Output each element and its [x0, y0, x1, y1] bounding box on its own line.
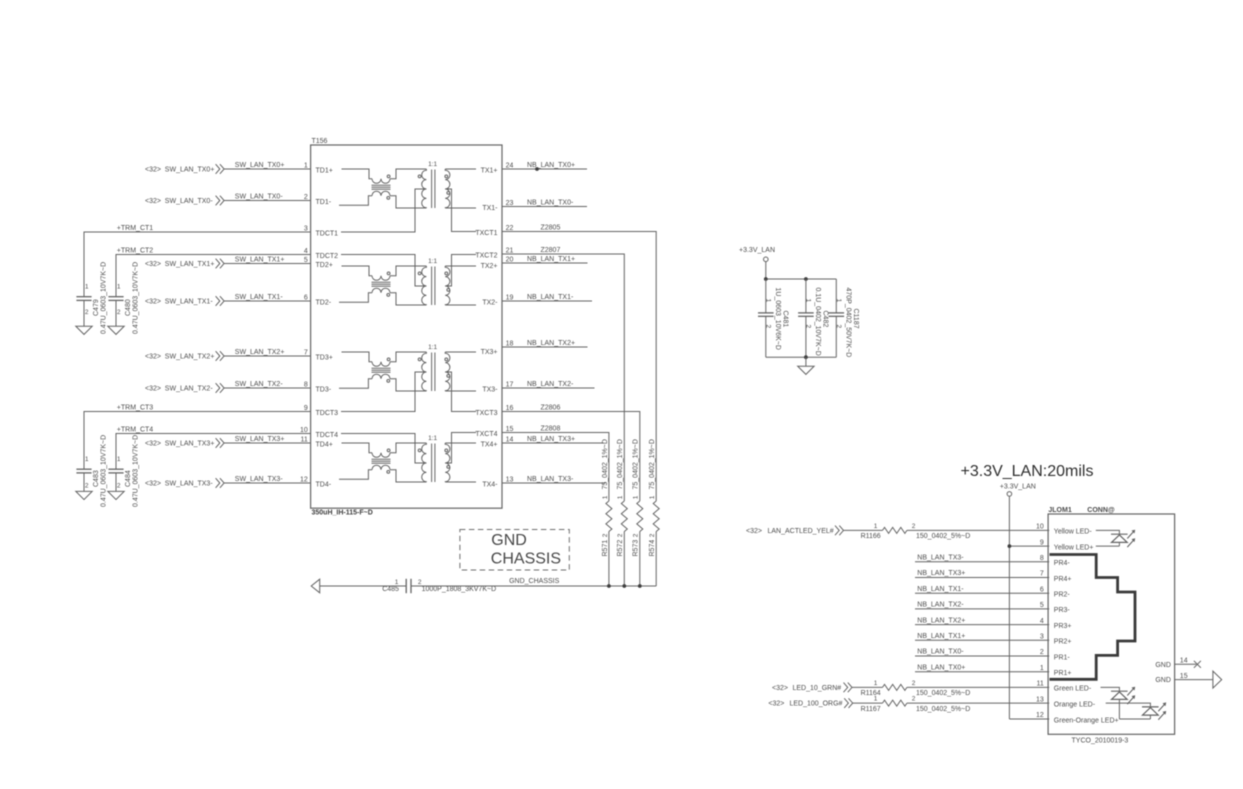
value label TYCO_2010019-3: [1072, 738, 1129, 745]
svg-text:24: 24: [506, 163, 514, 170]
svg-text:NB_LAN_TX1+: NB_LAN_TX1+: [527, 256, 575, 263]
svg-text:NB_LAN_TX3+: NB_LAN_TX3+: [917, 570, 965, 577]
junction pin 9: [1008, 544, 1012, 548]
svg-text:350uH_IH-115-F~D: 350uH_IH-115-F~D: [312, 510, 373, 517]
svg-text:SW_LAN_TX0+: SW_LAN_TX0+: [235, 162, 285, 169]
pin 1 TD1+: [304, 163, 333, 175]
svg-text:TD3+: TD3+: [316, 355, 333, 362]
svg-text:TXCT4: TXCT4: [475, 431, 497, 438]
wire NB_LAN_TX2-: [915, 602, 1049, 609]
pin 13 TX4-: [482, 477, 513, 489]
svg-text:4: 4: [304, 248, 308, 255]
wire LAN_ACTLED_YEL#: [844, 529, 883, 531]
svg-text:1000P_1808_3KV7K~D: 1000P_1808_3KV7K~D: [422, 586, 497, 593]
wire NB_LAN_TX0+: [915, 664, 1049, 671]
wire +TRM_CT4: [116, 426, 311, 469]
svg-text:2: 2: [912, 696, 916, 703]
svg-text:SW_LAN_TX3+: SW_LAN_TX3+: [235, 436, 285, 443]
svg-text:2: 2: [633, 533, 640, 537]
svg-text:TDCT2: TDCT2: [316, 253, 339, 260]
svg-text:NB_LAN_TX1-: NB_LAN_TX1-: [527, 294, 574, 301]
pin 21 TXCT2: [475, 248, 513, 260]
wire GND_CHASSIS right: [411, 578, 656, 586]
pin 7 PR4+: [1040, 571, 1072, 583]
svg-text:TXCT3: TXCT3: [475, 410, 497, 417]
svg-text:15: 15: [1180, 673, 1188, 680]
svg-text:1: 1: [649, 495, 656, 499]
resistor R574: [649, 439, 659, 556]
off-page arrow GND_CHASSIS: [311, 579, 320, 593]
svg-text:<32>: <32>: [768, 701, 784, 708]
svg-text:PR2+: PR2+: [1054, 639, 1072, 646]
svg-text:<32>: <32>: [145, 261, 161, 268]
svg-text:TD2+: TD2+: [316, 262, 333, 269]
wire secondary center tap channel 1: [445, 189, 476, 232]
svg-text:1: 1: [633, 495, 640, 499]
svg-text:Z2807: Z2807: [541, 247, 561, 254]
common-mode choke channel 1: [339, 169, 426, 208]
svg-text:R1166: R1166: [861, 533, 881, 540]
svg-text:C484: C484: [125, 470, 132, 487]
svg-text:SW_LAN_TX2+: SW_LAN_TX2+: [165, 353, 215, 360]
wire Green-Orange LED+ internal: [1119, 718, 1150, 720]
svg-text:13: 13: [506, 477, 514, 484]
ground: [76, 326, 92, 334]
svg-text:Z2806: Z2806: [541, 404, 561, 411]
svg-text:SW_LAN_TX0-: SW_LAN_TX0-: [235, 194, 284, 201]
svg-text:C1187: C1187: [852, 309, 859, 329]
svg-text:<32>: <32>: [145, 385, 161, 392]
pin 4 PR3+: [1040, 618, 1072, 630]
svg-text:R571: R571: [602, 540, 609, 557]
svg-text:470P_0402_50V7K~D: 470P_0402_50V7K~D: [845, 288, 852, 358]
ground: [108, 491, 124, 499]
svg-text:9: 9: [1040, 539, 1044, 546]
pin 3 TDCT1: [304, 226, 338, 238]
pin 15 TXCT4: [475, 426, 513, 438]
wire R1166 to connector: [907, 529, 1049, 531]
wire R572 to GND_CHASSIS: [623, 532, 625, 587]
off-page connector SW_LAN_TX1-: [145, 296, 224, 306]
common-mode choke channel 2: [339, 266, 426, 305]
off-page connector SW_LAN_TX0+: [145, 164, 224, 174]
svg-text:1: 1: [765, 299, 772, 303]
svg-text:13: 13: [1036, 696, 1044, 703]
wire top rail: [766, 278, 837, 280]
pin 12 TD4-: [300, 477, 332, 489]
pin 3 PR2+: [1040, 634, 1072, 646]
svg-text:<32>: <32>: [145, 480, 161, 487]
svg-text:Yellow LED+: Yellow LED+: [1054, 544, 1094, 551]
svg-text:2: 2: [117, 309, 121, 316]
svg-text:LED_100_ORG#: LED_100_ORG#: [790, 701, 843, 708]
ground: [76, 491, 92, 499]
svg-text:C479: C479: [93, 299, 100, 316]
LED yellow: [1096, 530, 1135, 547]
common-mode choke channel 3: [339, 352, 426, 391]
isolation transformer 1:1 channel 1: [418, 161, 476, 208]
svg-text:2: 2: [912, 680, 916, 687]
off-page connector SW_LAN_TX0-: [145, 196, 224, 206]
pin 11 TD4+: [301, 437, 333, 449]
svg-text:CHASSIS: CHASSIS: [491, 551, 561, 568]
isolation transformer 1:1 channel 2: [418, 258, 476, 305]
svg-text:21: 21: [506, 248, 514, 255]
svg-text:15: 15: [506, 426, 514, 433]
svg-text:2: 2: [912, 523, 916, 530]
svg-text:PR3+: PR3+: [1054, 623, 1072, 630]
wire NB_LAN_TX1+: [502, 256, 588, 263]
svg-text:1: 1: [805, 299, 812, 303]
svg-text:GND: GND: [1155, 677, 1171, 684]
wire primary center tap channel 2: [341, 255, 426, 287]
svg-text:NB_LAN_TX2-: NB_LAN_TX2-: [917, 602, 964, 609]
title +3.3V_LAN:20mils: [961, 463, 1094, 480]
wire SW_LAN_TX1+: [224, 257, 310, 264]
pin 19 TX2-: [482, 295, 513, 307]
svg-text:GND_CHASSIS: GND_CHASSIS: [509, 578, 560, 585]
svg-text:Green-Orange LED+: Green-Orange LED+: [1054, 717, 1119, 724]
off-page connector LED_10_GRN#: [772, 683, 852, 693]
svg-text:<32>: <32>: [145, 166, 161, 173]
junction R572: [622, 584, 626, 588]
RJ45 jack outline: [1050, 555, 1136, 680]
svg-text:14: 14: [1180, 657, 1188, 664]
value label 350uH_IH-115-F~D: [312, 510, 373, 517]
resistor R573: [633, 439, 643, 556]
pin 8 PR4-: [1040, 555, 1071, 567]
svg-text:TX4-: TX4-: [482, 482, 498, 489]
svg-text:TYCO_2010019-3: TYCO_2010019-3: [1072, 738, 1129, 745]
svg-text:2: 2: [602, 533, 609, 537]
wire R571 to GND_CHASSIS: [608, 532, 610, 587]
svg-text:R572: R572: [617, 540, 624, 557]
ground: [798, 357, 814, 374]
junction: [764, 277, 768, 281]
wire NB_LAN_TX0+: [502, 162, 587, 169]
svg-text:T156: T156: [312, 138, 328, 145]
capacitor C484: [108, 435, 139, 507]
svg-text:0.1U_0402_10V7K~D: 0.1U_0402_10V7K~D: [814, 288, 821, 356]
svg-text:1:1: 1:1: [428, 435, 437, 442]
svg-text:C483: C483: [93, 470, 100, 487]
LED orange: [1106, 702, 1167, 719]
pin 9 TDCT3: [304, 405, 338, 417]
svg-text:TX1+: TX1+: [481, 168, 498, 175]
svg-text:1: 1: [117, 284, 121, 291]
svg-text:SW_LAN_TX0-: SW_LAN_TX0-: [165, 198, 214, 205]
pin 18 TX3+: [481, 341, 514, 357]
wire NB_LAN_TX2-: [502, 381, 595, 388]
svg-text:12: 12: [300, 477, 308, 484]
wire +3.3V_LAN vertical: [1008, 496, 1010, 719]
svg-text:PR1-: PR1-: [1054, 654, 1071, 661]
wire NB_LAN_TX1-: [915, 586, 1049, 593]
svg-text:23: 23: [506, 200, 514, 207]
capacitor C481: [758, 279, 789, 357]
wire Z2805: [502, 224, 656, 501]
wire NB_LAN_TX0-: [915, 649, 1049, 656]
wire SW_LAN_TX3+: [224, 436, 310, 443]
svg-text:TDCT1: TDCT1: [316, 231, 339, 238]
svg-text:10: 10: [300, 427, 308, 434]
pin 4 TDCT2: [304, 248, 338, 260]
svg-text:2: 2: [649, 533, 656, 537]
wire LED_10_GRN#: [852, 686, 882, 688]
svg-text:TD1+: TD1+: [316, 168, 333, 175]
off-page connector SW_LAN_TX2-: [145, 383, 224, 393]
svg-text:SW_LAN_TX1-: SW_LAN_TX1-: [165, 298, 214, 305]
resistor R571: [602, 439, 612, 556]
wire +TRM_CT1: [84, 225, 311, 297]
svg-text:75_0402_1%~D: 75_0402_1%~D: [633, 439, 640, 489]
off-page connector SW_LAN_TX2+: [145, 351, 224, 361]
svg-text:+3.3V_LAN: +3.3V_LAN: [1000, 484, 1036, 491]
svg-text:SW_LAN_TX3-: SW_LAN_TX3-: [235, 476, 284, 483]
svg-text:2: 2: [805, 325, 812, 329]
svg-text:R1167: R1167: [861, 706, 881, 713]
wire Z2806: [502, 404, 640, 501]
svg-text:PR2-: PR2-: [1054, 592, 1071, 599]
wire secondary center tap channel 4: [445, 433, 476, 464]
svg-text:+TRM_CT3: +TRM_CT3: [117, 404, 153, 411]
svg-text:Orange LED-: Orange LED-: [1054, 701, 1096, 708]
svg-text:12: 12: [1036, 712, 1044, 719]
svg-text:0.47U_0603_10V7K~D: 0.47U_0603_10V7K~D: [100, 262, 107, 334]
ground: [108, 326, 124, 334]
wire R1164 to connector: [907, 686, 1049, 688]
svg-text:17: 17: [506, 382, 514, 389]
svg-text:+3.3V_LAN:20mils: +3.3V_LAN:20mils: [961, 463, 1094, 480]
wire LED_100_ORG#: [853, 702, 883, 704]
svg-text:3: 3: [304, 226, 308, 233]
capacitor C1187: [829, 279, 860, 357]
wire NB_LAN_TX1+: [915, 633, 1049, 640]
svg-text:NB_LAN_TX2-: NB_LAN_TX2-: [527, 381, 574, 388]
svg-text:TDCT4: TDCT4: [316, 432, 339, 439]
svg-text:TX3+: TX3+: [481, 349, 498, 356]
wire R573 to GND_CHASSIS: [639, 532, 641, 587]
svg-text:2: 2: [304, 194, 308, 201]
wire SW_LAN_TX3-: [224, 476, 310, 483]
wire R574 to GND_CHASSIS: [655, 532, 657, 587]
svg-text:TD2-: TD2-: [316, 300, 332, 307]
svg-text:9: 9: [304, 405, 308, 412]
svg-text:SW_LAN_TX2+: SW_LAN_TX2+: [235, 349, 285, 356]
svg-text:NB_LAN_TX0+: NB_LAN_TX0+: [527, 162, 575, 169]
pin 15 GND off-page: [1155, 671, 1221, 688]
svg-text:JLOM1: JLOM1: [1048, 507, 1071, 514]
wire Z2808: [502, 425, 609, 501]
svg-text:150_0402_5%~D: 150_0402_5%~D: [916, 706, 970, 713]
svg-text:TX4+: TX4+: [481, 442, 498, 449]
svg-text:LAN_ACTLED_YEL#: LAN_ACTLED_YEL#: [768, 528, 834, 535]
svg-text:GND: GND: [1155, 662, 1171, 669]
svg-text:11: 11: [301, 437, 308, 444]
svg-text:6: 6: [1040, 586, 1044, 593]
wire GND_CHASSIS left: [320, 585, 407, 587]
svg-text:PR4-: PR4-: [1054, 560, 1071, 567]
wire SW_LAN_TX2+: [224, 349, 310, 356]
pin 14 TX4+: [481, 437, 514, 449]
pin 9 Yellow LED+: [1040, 539, 1094, 551]
wire NB_LAN_TX3+: [502, 436, 604, 443]
capacitor C483: [76, 435, 107, 507]
svg-text:SW_LAN_TX1-: SW_LAN_TX1-: [235, 294, 284, 301]
capacitor C482: [798, 279, 829, 357]
svg-text:NB_LAN_TX1+: NB_LAN_TX1+: [917, 633, 965, 640]
svg-text:NB_LAN_TX2+: NB_LAN_TX2+: [917, 617, 965, 624]
isolation transformer 1:1 channel 3: [418, 344, 476, 391]
svg-text:CONN@: CONN@: [1087, 507, 1115, 514]
svg-text:3: 3: [1040, 634, 1044, 641]
svg-text:TD4-: TD4-: [316, 482, 332, 489]
junction on NB_LAN_TX0+: [535, 167, 539, 171]
svg-text:1: 1: [874, 523, 878, 530]
wire NB_LAN_TX3-: [915, 555, 1049, 562]
svg-text:0.47U_0603_10V7K~D: 0.47U_0603_10V7K~D: [132, 435, 139, 507]
svg-text:+TRM_CT4: +TRM_CT4: [117, 426, 153, 433]
isolation transformer 1:1 channel 4: [418, 435, 476, 482]
pin 14 GND no-connect: [1155, 657, 1201, 668]
pin 7 TD3+: [304, 350, 333, 362]
svg-text:<32>: <32>: [772, 685, 788, 692]
svg-text:Z2805: Z2805: [541, 224, 561, 231]
svg-text:22: 22: [506, 225, 514, 232]
svg-text:PR4+: PR4+: [1054, 576, 1072, 583]
svg-text:SW_LAN_TX0+: SW_LAN_TX0+: [165, 166, 215, 173]
svg-text:TX1-: TX1-: [482, 205, 498, 212]
off-page connector LAN_ACTLED_YEL#: [746, 526, 844, 536]
power +3.3V_LAN: [1000, 484, 1036, 497]
pin 13 Orange LED-: [1036, 696, 1096, 708]
svg-text:Green LED-: Green LED-: [1054, 686, 1092, 693]
svg-text:SW_LAN_TX1+: SW_LAN_TX1+: [235, 257, 285, 264]
svg-text:2: 2: [117, 483, 121, 490]
svg-text:TXCT2: TXCT2: [475, 253, 497, 260]
svg-text:SW_LAN_TX3-: SW_LAN_TX3-: [165, 480, 214, 487]
svg-text:NB_LAN_TX3-: NB_LAN_TX3-: [527, 476, 574, 483]
pin 2 TD1-: [304, 194, 332, 206]
transformer T156 body: [311, 138, 502, 508]
wire +TRM_CT2: [116, 247, 311, 296]
wire to pin 9: [1009, 545, 1049, 547]
svg-text:R574: R574: [649, 540, 656, 557]
svg-text:TDCT3: TDCT3: [316, 410, 339, 417]
resistor R1164: [861, 680, 971, 697]
off-page connector SW_LAN_TX3-: [145, 478, 224, 488]
svg-text:<32>: <32>: [145, 440, 161, 447]
svg-text:TD4+: TD4+: [316, 442, 333, 449]
pin 5 TD2+: [304, 257, 333, 269]
wire NB_LAN_TX2+: [502, 340, 588, 347]
pin 22 TXCT1: [475, 225, 513, 237]
svg-text:1: 1: [85, 284, 89, 291]
pin 23 TX1-: [482, 200, 513, 212]
pin 8 TD3-: [304, 382, 332, 394]
svg-text:1:1: 1:1: [428, 258, 437, 265]
svg-text:75_0402_1%~D: 75_0402_1%~D: [617, 439, 624, 489]
svg-text:2: 2: [1040, 649, 1044, 656]
svg-text:SW_LAN_TX3+: SW_LAN_TX3+: [165, 440, 215, 447]
svg-text:C485: C485: [382, 586, 399, 593]
svg-text:Z2808: Z2808: [541, 425, 561, 432]
wire secondary center tap channel 2: [445, 255, 476, 287]
resistor R1167: [861, 696, 971, 713]
svg-text:<32>: <32>: [746, 528, 762, 535]
svg-text:R1164: R1164: [861, 690, 881, 697]
svg-text:1: 1: [1040, 665, 1044, 672]
junction: [804, 277, 808, 281]
svg-text:75_0402_1%~D: 75_0402_1%~D: [602, 439, 609, 489]
svg-text:10: 10: [1036, 524, 1044, 531]
svg-text:2: 2: [617, 533, 624, 537]
resistor R572: [617, 439, 627, 556]
svg-text:19: 19: [506, 295, 514, 302]
svg-text:1: 1: [304, 163, 308, 170]
wire bottom rail: [766, 356, 837, 358]
svg-text:2: 2: [85, 483, 89, 490]
svg-text:PR3-: PR3-: [1054, 607, 1071, 614]
svg-text:C480: C480: [125, 299, 132, 316]
svg-text:R573: R573: [633, 540, 640, 557]
capacitor C479: [76, 262, 107, 334]
svg-text:SW_LAN_TX1+: SW_LAN_TX1+: [165, 261, 215, 268]
svg-text:2: 2: [85, 309, 89, 316]
connector JLOM1 body: [1048, 507, 1175, 734]
svg-text:75_0402_1%~D: 75_0402_1%~D: [649, 439, 656, 489]
svg-text:PR1+: PR1+: [1054, 670, 1072, 677]
svg-text:+TRM_CT1: +TRM_CT1: [117, 225, 153, 232]
capacitor C485: [382, 579, 496, 593]
svg-text:Yellow LED-: Yellow LED-: [1054, 529, 1093, 536]
svg-text:TX3-: TX3-: [482, 387, 498, 394]
wire NB_LAN_TX3-: [502, 476, 606, 483]
resistor R1166: [861, 523, 971, 540]
svg-text:TD1-: TD1-: [316, 199, 332, 206]
wire R1167 to connector: [907, 702, 1049, 704]
svg-text:1:1: 1:1: [428, 161, 437, 168]
wire NB_LAN_TX2+: [915, 617, 1049, 624]
off-page connector SW_LAN_TX1+: [145, 259, 224, 269]
svg-text:C481: C481: [782, 311, 789, 328]
capacitor C480: [108, 262, 139, 334]
pin 10 Yellow LED-: [1036, 524, 1092, 536]
svg-text:20: 20: [506, 257, 514, 264]
svg-text:NB_LAN_TX0+: NB_LAN_TX0+: [917, 664, 965, 671]
wire +TRM_CT3: [84, 404, 311, 469]
svg-text:NB_LAN_TX3-: NB_LAN_TX3-: [917, 555, 964, 562]
common-mode choke channel 4: [339, 443, 426, 482]
svg-text:5: 5: [304, 257, 308, 264]
svg-text:2: 2: [835, 325, 842, 329]
pin 11 Green LED-: [1037, 681, 1092, 693]
svg-text:2: 2: [765, 325, 772, 329]
wire primary center tap channel 3: [341, 372, 426, 412]
wire SW_LAN_TX0-: [224, 194, 310, 201]
pin 20 TX2+: [481, 257, 514, 271]
svg-text:1: 1: [117, 456, 121, 463]
svg-text:150_0402_5%~D: 150_0402_5%~D: [916, 690, 970, 697]
power +3.3V_LAN: [739, 247, 775, 279]
svg-text:GND: GND: [491, 532, 527, 549]
svg-text:7: 7: [1040, 571, 1044, 578]
svg-text:8: 8: [1040, 555, 1044, 562]
pin 6 PR2-: [1040, 586, 1071, 598]
pin 10 TDCT4: [300, 427, 338, 439]
svg-text:1:1: 1:1: [428, 344, 437, 351]
wire NB_LAN_TX3+: [915, 570, 1049, 577]
